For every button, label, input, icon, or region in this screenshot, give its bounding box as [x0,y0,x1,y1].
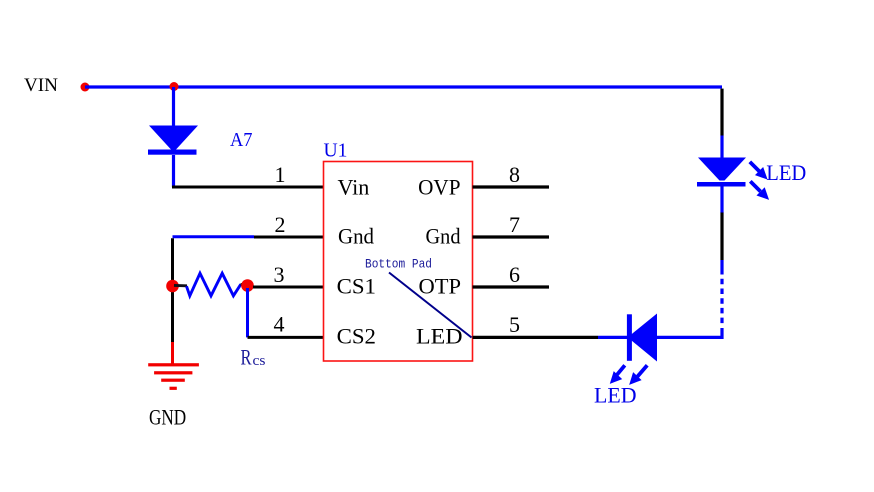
LED D1 triangle (top LED) [698,158,746,181]
svg-text:A7: A7 [230,129,253,151]
wire CS2 branch vertical blue [246,288,249,337]
wire right vertical black upper segment [720,89,723,136]
pin 5 wire blue segment to LED [598,336,627,339]
svg-text:cs: cs [253,353,266,369]
resistor RCS lead right [241,283,251,286]
pin 2 wire blue segment [173,235,255,238]
svg-text:3: 3 [274,262,285,287]
wire right vertical black lower segment [720,213,723,261]
svg-text:GND: GND [149,404,186,429]
node dot resistor left [166,280,179,293]
IC U1 body [324,162,473,362]
label RCS [241,345,266,370]
pin 5 wire black segment [473,336,599,339]
svg-text:OVP: OVP [418,175,460,200]
wire right vertical dashed blue [720,279,723,325]
pin 1 wire [172,186,324,189]
pin 6 wire [473,285,550,288]
svg-text:6: 6 [509,262,520,287]
wire ground branch vertical black [171,238,174,342]
LED D1 arrow 1 [750,162,772,184]
svg-text:Bottom Pad: Bottom Pad [365,257,432,272]
LED D2 triangle (bottom LED) [632,314,658,362]
pin 3 wire [253,286,324,289]
pin 4 wire [248,336,324,339]
svg-text:CS2: CS2 [337,323,376,348]
wire right vertical blue above LED D1 [720,136,723,159]
svg-text:VIN: VIN [24,75,58,96]
svg-text:OTP: OTP [419,273,462,298]
resistor RCS zigzag [187,273,241,296]
svg-text:LED: LED [594,382,637,407]
svg-text:Gnd: Gnd [338,223,374,248]
wire below LED D1 blue [720,187,723,214]
svg-text:LED: LED [766,160,806,185]
wire right vertical blue bottom segment [720,328,723,339]
svg-text:Gnd: Gnd [426,223,461,248]
LED D1 arrow 2 [750,181,773,204]
svg-text:8: 8 [509,162,520,187]
LED D2 arrow 1 [606,365,625,388]
ground symbol [148,363,199,390]
node junction dot at diode tap [170,82,179,91]
svg-text:Vin: Vin [338,175,370,200]
svg-text:5: 5 [509,312,520,337]
svg-text:U1: U1 [324,139,348,161]
svg-text:7: 7 [509,212,520,237]
bottom pad diagonal line [389,273,472,338]
svg-text:R: R [241,345,252,370]
wire VIN horizontal (top rail) [85,85,722,88]
svg-text:1: 1 [275,162,286,187]
svg-text:CS1: CS1 [337,273,376,298]
node VIN junction dot [81,83,90,92]
wire diode cathode vertical [172,155,175,187]
svg-text:4: 4 [274,312,285,337]
wire right vertical blue solid above dashes [720,260,723,275]
resistor RCS lead left [174,284,187,287]
LED D2 cathode bar (bottom LED) [627,314,632,361]
svg-text:2: 2 [275,212,286,237]
wire LED D2 to right vertical [657,336,724,339]
ground lead red [171,342,174,364]
wire diode anode vertical [172,87,175,126]
diode A7 symbol [148,126,198,155]
svg-text:LED: LED [416,323,463,348]
LED D1 cathode bar (top LED) [697,182,746,187]
pin 2 wire black segment [254,236,324,239]
pin 8 wire [473,185,550,188]
LED D2 arrow 2 [625,365,647,389]
node dot resistor right [241,279,254,292]
pin 7 wire [473,235,550,238]
